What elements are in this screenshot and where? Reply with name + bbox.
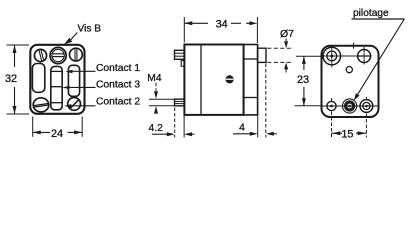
hole top-left (washer) bbox=[323, 45, 341, 68]
label Contact 2 with leader bbox=[64, 97, 140, 108]
dimension M4 bbox=[147, 73, 176, 114]
pilotage port bbox=[343, 99, 357, 113]
label Contact 3 with leader bbox=[62, 80, 140, 91]
terminal slot middle bbox=[51, 66, 62, 109]
svg-text:4.2: 4.2 bbox=[149, 123, 164, 134]
dimension 24 (bottom of left view) bbox=[33, 117, 82, 141]
hole bottom-right (washer) bbox=[360, 97, 373, 113]
middle view internal vertical line bbox=[200, 45, 202, 115]
dimension 4 (nipple offset) bbox=[233, 64, 277, 138]
bottom centerline bbox=[322, 105, 380, 107]
label pilotage with leader bbox=[352, 8, 405, 101]
side screw head bbox=[226, 75, 234, 83]
middle view front plate strip bbox=[244, 45, 258, 115]
screw Vis B (top middle) bbox=[50, 47, 66, 63]
right view body bbox=[322, 46, 379, 117]
dimension 34 (top of middle view) bbox=[184, 17, 257, 43]
small center hole bbox=[346, 67, 352, 73]
pilot nipple O7 bbox=[258, 48, 266, 62]
M4 stud top bbox=[175, 50, 185, 59]
svg-text:Ø7: Ø7 bbox=[280, 28, 294, 40]
top centerline bbox=[323, 43, 372, 56]
washer step below top stud bbox=[181, 61, 184, 67]
label Contact 1 with leader bbox=[65, 63, 140, 74]
svg-text:Contact 1: Contact 1 bbox=[96, 63, 140, 74]
svg-text:24: 24 bbox=[51, 128, 63, 140]
screw top-left bbox=[34, 49, 46, 61]
middle view body bbox=[184, 45, 243, 115]
svg-text:15: 15 bbox=[341, 128, 353, 140]
dimension 23 bbox=[295, 56, 323, 106]
screw bottom-left bbox=[33, 98, 49, 112]
svg-text:23: 23 bbox=[297, 74, 309, 86]
dimension 32 (left) bbox=[5, 45, 29, 114]
svg-text:34: 34 bbox=[216, 19, 228, 31]
svg-text:32: 32 bbox=[5, 73, 17, 85]
hole top-right (screw) bbox=[358, 47, 371, 65]
terminal slot left bbox=[32, 64, 44, 93]
dimension 15 bbox=[332, 112, 367, 141]
hole bottom-left bbox=[327, 98, 336, 110]
svg-text:pilotage: pilotage bbox=[353, 8, 389, 19]
dimension O7 bbox=[267, 28, 294, 73]
svg-text:Contact 3: Contact 3 bbox=[96, 80, 140, 91]
terminal slot right bbox=[68, 65, 79, 96]
screw top-right bbox=[70, 48, 83, 61]
svg-text:Contact 2: Contact 2 bbox=[96, 97, 140, 108]
svg-text:4: 4 bbox=[239, 122, 245, 133]
label Vis B bbox=[64, 23, 101, 44]
svg-text:M4: M4 bbox=[147, 73, 162, 84]
left view body bbox=[30, 45, 84, 114]
M4 stud bottom bbox=[175, 99, 185, 106]
svg-text:Vis B: Vis B bbox=[78, 23, 102, 34]
dimension 4.2 bbox=[149, 108, 195, 138]
screw bottom-right (contact 2 terminal) bbox=[68, 98, 81, 111]
